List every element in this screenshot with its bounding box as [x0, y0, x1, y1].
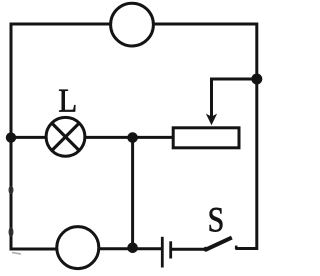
meter (bottom, unlabeled circle): [57, 227, 99, 269]
wire: centre vertical branch: [131, 137, 134, 248]
label S: [210, 208, 223, 232]
lamp L (circle with X): [46, 117, 85, 156]
wire: bottom, meter to battery: [100, 247, 162, 250]
rheostat slider arrowhead: [206, 114, 217, 126]
switch fixed contact nub: [235, 246, 238, 250]
battery: short plate (-): [169, 241, 172, 258]
junction dot on left rail at middle row: [6, 132, 16, 142]
wire: outer loop left + top-left segment: [11, 24, 110, 249]
scan artifact: bulge on left rail (lower): [9, 227, 14, 237]
wire: battery to switch pivot: [172, 248, 206, 251]
junction dot at centre node: [127, 132, 138, 143]
junction dot on right rail (slider tap): [251, 74, 262, 85]
meter (top, unlabeled circle): [111, 3, 154, 46]
wire: rheostat slider to right rail: [212, 79, 255, 119]
junction dot at bottom of centre branch: [127, 243, 138, 254]
wire: lamp to rheostat left terminal: [85, 136, 173, 139]
battery: long plate (+): [161, 237, 164, 268]
scan artifact: faint smudge below bottom-left corner: [12, 253, 21, 255]
scan artifact: bulge on left rail (upper): [9, 186, 14, 194]
wire: top-right segment + right rail down to bottom-right corner: [155, 24, 257, 249]
wire: middle row, left rail to lamp: [10, 136, 48, 139]
label L: [59, 90, 75, 112]
switch S blade (open): [205, 238, 232, 250]
switch S pivot: [203, 247, 208, 252]
rheostat body (rectangle): [173, 128, 239, 148]
